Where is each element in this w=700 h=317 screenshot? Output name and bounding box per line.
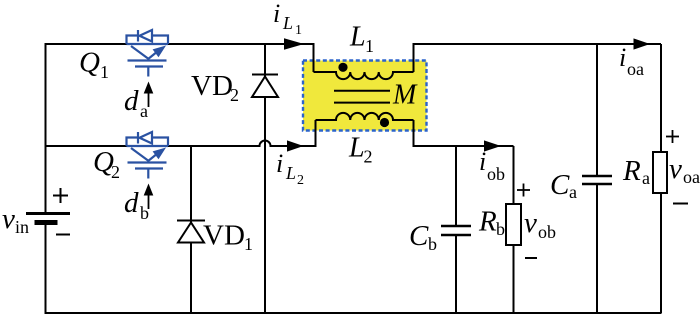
label iob bbox=[479, 147, 505, 184]
current arrow iob bbox=[484, 140, 501, 151]
label Ra bbox=[622, 155, 650, 188]
svg-text:i: i bbox=[619, 43, 626, 72]
wire: Ca branch bbox=[596, 44, 598, 313]
wire: Q1 output to L1 entry bbox=[168, 44, 314, 72]
transistor Q1 bbox=[127, 30, 169, 77]
transformer coupling highlight box bbox=[303, 61, 427, 131]
svg-text:d: d bbox=[124, 85, 139, 117]
svg-text:1: 1 bbox=[295, 23, 302, 38]
wire: VD1 branch vertical bbox=[190, 146, 192, 313]
current arrow iL1 bbox=[284, 38, 304, 50]
wire: right rail with Ra bbox=[660, 44, 662, 313]
label VD2 bbox=[191, 70, 239, 105]
label Cb bbox=[409, 220, 437, 254]
current arrow ioa bbox=[634, 38, 651, 49]
Ra plus sign bbox=[666, 130, 679, 143]
svg-text:R: R bbox=[622, 155, 641, 187]
svg-text:2: 2 bbox=[297, 173, 304, 188]
current arrow iL2 bbox=[287, 140, 304, 151]
svg-text:i: i bbox=[276, 149, 283, 178]
svg-text:oa: oa bbox=[627, 59, 644, 79]
svg-text:ob: ob bbox=[487, 164, 505, 184]
svg-text:1: 1 bbox=[244, 234, 253, 254]
label vin bbox=[2, 203, 29, 237]
svg-text:ob: ob bbox=[538, 222, 556, 242]
svg-text:in: in bbox=[15, 217, 29, 237]
label da bbox=[124, 85, 148, 121]
label Q2 bbox=[93, 146, 120, 182]
L1 polarity dot bbox=[338, 63, 347, 72]
diode VD1 bbox=[177, 221, 205, 243]
svg-text:2: 2 bbox=[111, 162, 120, 182]
svg-text:1: 1 bbox=[365, 36, 374, 56]
label iL2 bbox=[276, 149, 304, 188]
inductor L2 winding bbox=[316, 113, 414, 120]
svg-text:L: L bbox=[348, 133, 365, 164]
battery Vin bbox=[26, 214, 70, 223]
svg-text:b: b bbox=[496, 219, 505, 239]
wire: Cb branch bbox=[455, 146, 457, 313]
wire: VD2 branch vertical bbox=[264, 44, 266, 313]
transistor Q2 emitter arrowhead bbox=[153, 148, 166, 160]
svg-text:L: L bbox=[285, 163, 296, 183]
resistor Rb bbox=[506, 204, 521, 245]
svg-text:b: b bbox=[428, 234, 437, 254]
inductor L1 winding bbox=[314, 72, 414, 79]
label Ca bbox=[550, 169, 577, 202]
battery plus sign bbox=[53, 188, 68, 203]
svg-text:2: 2 bbox=[364, 147, 373, 167]
wire: left rail and input rows bbox=[46, 44, 127, 313]
capacitor Ca bbox=[582, 176, 612, 184]
transistor Q1 emitter arrowhead bbox=[153, 46, 166, 58]
wire: Q2 output row with hop over VD2 branch bbox=[168, 120, 316, 146]
Rb minus sign bbox=[525, 257, 537, 259]
svg-text:1: 1 bbox=[100, 62, 109, 82]
svg-text:v: v bbox=[669, 153, 682, 185]
label Rb bbox=[478, 206, 505, 240]
wire: bottom rail bbox=[45, 312, 662, 314]
label vob bbox=[524, 207, 556, 242]
svg-text:Q: Q bbox=[79, 47, 100, 79]
svg-text:i: i bbox=[479, 147, 486, 176]
svg-text:2: 2 bbox=[230, 85, 239, 105]
svg-text:i: i bbox=[273, 0, 280, 28]
label db bbox=[124, 187, 149, 223]
svg-text:VD: VD bbox=[203, 220, 245, 252]
label L2 bbox=[348, 133, 373, 167]
diode VD2 bbox=[252, 75, 278, 98]
Ra minus sign bbox=[673, 203, 688, 205]
capacitor Cb bbox=[441, 226, 471, 235]
svg-text:d: d bbox=[124, 187, 139, 219]
svg-text:a: a bbox=[642, 168, 650, 188]
transistor Q2 bbox=[127, 132, 169, 179]
label Q1 bbox=[79, 47, 109, 83]
wire: Rb branch bbox=[513, 146, 515, 313]
svg-text:L: L bbox=[349, 22, 366, 53]
svg-text:VD: VD bbox=[191, 70, 233, 102]
svg-text:v: v bbox=[2, 203, 15, 235]
wire: L1 exit to top-right rail bbox=[414, 44, 662, 72]
label iL1 bbox=[273, 0, 302, 38]
label ioa bbox=[619, 43, 644, 79]
svg-text:v: v bbox=[524, 207, 537, 239]
label L1 bbox=[349, 22, 374, 57]
svg-text:a: a bbox=[140, 101, 148, 121]
svg-text:L: L bbox=[282, 13, 293, 33]
battery minus sign bbox=[56, 234, 70, 236]
svg-text:R: R bbox=[478, 206, 497, 238]
svg-text:a: a bbox=[569, 182, 577, 202]
svg-text:C: C bbox=[409, 220, 429, 252]
svg-text:oa: oa bbox=[683, 167, 700, 187]
wire: L2 exit to Rb branch bbox=[414, 120, 514, 146]
svg-text:M: M bbox=[392, 80, 418, 111]
magnetic core M bbox=[334, 91, 390, 103]
drive arrow da bbox=[144, 82, 154, 108]
L2 polarity dot bbox=[380, 118, 389, 127]
drive arrow db bbox=[144, 184, 154, 210]
label voa bbox=[669, 153, 700, 187]
Rb plus sign bbox=[517, 184, 530, 197]
label VD1 bbox=[203, 220, 253, 255]
svg-text:b: b bbox=[140, 203, 149, 223]
resistor Ra bbox=[653, 152, 667, 193]
svg-text:C: C bbox=[550, 169, 570, 201]
